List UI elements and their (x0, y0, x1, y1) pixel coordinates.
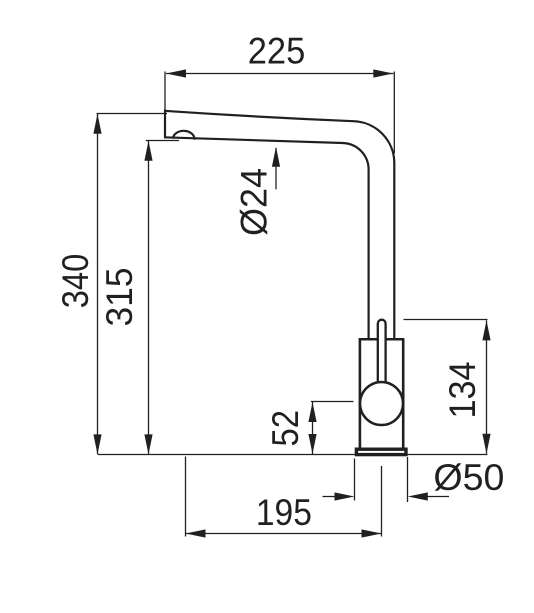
arrow left 195 (186, 529, 206, 537)
svg-text:Ø24: Ø24 (234, 168, 275, 236)
svg-text:134: 134 (442, 362, 483, 419)
control ball circle (360, 382, 403, 425)
baseline (mounting surface) (98, 454, 488, 456)
extension line: spout top level left (97, 113, 168, 115)
faucet body cylinder (360, 339, 403, 449)
arrow right 195 (362, 529, 382, 537)
arrow bottom 340 (93, 434, 101, 454)
arrow top 315 (144, 141, 152, 161)
faucet spout inner edge (bottom of arm into left side of vertical pipe) (164, 137, 369, 339)
dimension line 225 (166, 73, 393, 75)
arrow right 225 (373, 69, 393, 77)
arrow bottom 52 (308, 434, 316, 454)
body top line (359, 338, 405, 341)
svg-text:340: 340 (55, 254, 96, 309)
arrow top 134 (482, 320, 490, 340)
arrow bottom 315 (144, 434, 152, 454)
dimension line 315 (148, 141, 150, 455)
extension line: lever top level right (404, 319, 488, 321)
spout end cap (164, 110, 166, 139)
svg-text:52: 52 (265, 410, 306, 447)
svg-text:Ø50: Ø50 (433, 457, 504, 498)
arrow left 225 (166, 69, 186, 77)
base flange (356, 449, 406, 454)
arrow top 340 (93, 114, 101, 134)
svg-text:195: 195 (256, 492, 312, 533)
extension line: ball center level left of body (311, 401, 354, 403)
svg-text:315: 315 (99, 268, 140, 327)
Ø50 right arrow (422, 496, 449, 498)
extension line: spout underside level left (146, 140, 179, 142)
extension line below flange left (354, 459, 356, 501)
lever pin (rounded slot) (378, 320, 386, 385)
centre line of body down (381, 466, 383, 537)
extension line: spout outlet centre down (185, 457, 187, 537)
dimension line 340 (97, 114, 99, 454)
dimension line 52 (312, 402, 314, 454)
dimension line 195 (186, 533, 382, 535)
aerator dome on underside of spout (173, 131, 195, 140)
faucet spout outer edge (top arm into right side of vertical pipe) (164, 111, 394, 339)
dimension line 134 (486, 320, 488, 453)
Ø50 left arrow (323, 496, 341, 498)
extension line: pipe right edge up to 225 dimension (393, 72, 395, 154)
extension line: spout end up to 225 dimension (164, 72, 166, 111)
svg-text:225: 225 (248, 30, 306, 71)
arrow bottom 134 (482, 434, 490, 454)
leader arrow for Ø24 (275, 148, 277, 189)
arrow top 52 (308, 402, 316, 422)
extension line below flange right (407, 457, 409, 502)
